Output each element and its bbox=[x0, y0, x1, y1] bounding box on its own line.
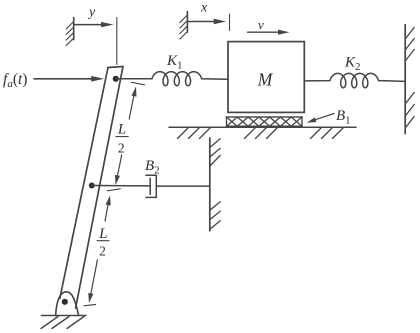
svg-text:v: v bbox=[258, 17, 264, 32]
spring K1 (rod top to mass) bbox=[116, 72, 229, 86]
arrow y (displacement coordinate) bbox=[74, 22, 114, 27]
svg-text:2: 2 bbox=[118, 141, 125, 156]
spring K2 (mass to right wall) bbox=[304, 73, 405, 87]
ground at pivot bbox=[41, 316, 86, 329]
svg-text:K2: K2 bbox=[344, 55, 361, 74]
dimension line L/2 lower (rod middle to pivot) bbox=[88, 196, 110, 304]
svg-text:B2: B2 bbox=[145, 158, 160, 177]
arrow f_a(t) bbox=[34, 76, 104, 82]
roller strip B1 (friction rollers under mass) bbox=[227, 117, 303, 126]
reference tick for x at mass edge bbox=[229, 14, 231, 31]
pivot support (dome over pin) bbox=[56, 292, 79, 316]
wall anchor for damper B2 bbox=[210, 138, 220, 231]
svg-text:fa(t): fa(t) bbox=[3, 71, 27, 90]
arrow pointing to B1 rollers bbox=[307, 114, 334, 123]
damper B2 (dashpot) bbox=[146, 175, 156, 197]
node: rod top connection (dot) bbox=[113, 76, 119, 82]
ground under mass bbox=[169, 127, 356, 138]
right wall anchor for K2 bbox=[405, 25, 414, 134]
node: pivot (dot) bbox=[62, 299, 68, 305]
reference line for y at rod top bbox=[116, 18, 118, 65]
svg-text:M: M bbox=[257, 70, 274, 90]
svg-text:B1: B1 bbox=[336, 108, 351, 127]
svg-text:x: x bbox=[200, 1, 208, 16]
arrow x (displacement coordinate) bbox=[187, 19, 226, 24]
svg-text:y: y bbox=[87, 5, 96, 20]
wire: damper B2 to wall bbox=[156, 185, 210, 187]
lever rod (massless bar) bbox=[60, 67, 123, 309]
label L/2 upper bbox=[116, 122, 128, 156]
dimension line L/2 upper (rod top to middle) bbox=[115, 82, 145, 185]
mass M (block) bbox=[228, 42, 304, 113]
wall anchor for x reference bbox=[180, 12, 188, 39]
tick at rod middle (shared dimension boundary) bbox=[107, 189, 120, 191]
svg-text:2: 2 bbox=[99, 244, 106, 259]
svg-text:L: L bbox=[117, 122, 126, 138]
wire: rod middle to damper B2 bbox=[92, 185, 150, 187]
wall anchor for y reference bbox=[66, 18, 74, 46]
arrow v (velocity of mass) bbox=[248, 30, 290, 35]
label L/2 lower bbox=[97, 226, 109, 259]
node: rod middle connection (dot) bbox=[89, 183, 95, 189]
tick at pivot end of dimension bbox=[84, 305, 96, 306]
svg-text:K1: K1 bbox=[166, 53, 183, 72]
svg-text:L: L bbox=[98, 226, 107, 242]
